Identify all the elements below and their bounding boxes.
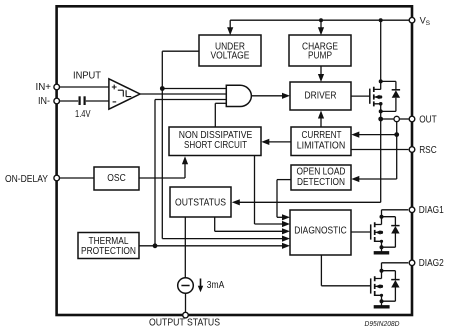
wire charge pump to driver <box>318 66 324 82</box>
op-amp comparator U1 <box>109 79 140 109</box>
wire thermal protection to diagnostic (arrow 5) <box>139 243 290 249</box>
box OSC <box>94 167 139 190</box>
box UNDER VOLTAGE <box>199 35 261 66</box>
wire diagnostic to Q2 gate <box>351 231 371 233</box>
ground Q3 <box>374 305 390 308</box>
terminal DIAG2 <box>409 258 444 269</box>
box OPEN LOAD DETECTION <box>291 165 351 190</box>
terminal DIAG1 <box>409 205 444 216</box>
svg-text:D95IN208D: D95IN208D <box>365 321 400 328</box>
junction dot Q2 body stub <box>380 231 383 234</box>
wire sense to open load detection <box>351 176 396 182</box>
wire outstatus to current source <box>184 217 186 278</box>
junction dot Q2 source node <box>380 245 384 249</box>
junction dot D1 anode node <box>379 109 383 113</box>
junction dot Q1 drain node <box>379 79 383 83</box>
power mosfet Q1 <box>351 20 381 119</box>
svg-text:DIAG1: DIAG1 <box>419 205 444 216</box>
box CHARGE PUMP <box>289 35 351 66</box>
svg-text:ON-DELAY: ON-DELAY <box>5 174 48 185</box>
label INPUT <box>73 70 101 81</box>
junction dot UV / AND input 1 <box>160 86 165 91</box>
wire under voltage output <box>162 51 199 238</box>
wire IN+ to comparator <box>59 86 109 88</box>
junction dot Q3 source node <box>380 299 384 303</box>
wire diagnostic to Q3 gate <box>321 255 370 286</box>
svg-text:VOLTAGE: VOLTAGE <box>211 51 250 62</box>
svg-text:OUT: OUT <box>419 114 437 125</box>
terminal IN- <box>38 96 60 107</box>
junction dot charge pump / rail <box>319 18 323 22</box>
wire UV to diagnostic (arrow 4) <box>162 236 290 242</box>
wire current limitation to short circuit <box>261 139 291 145</box>
wire AND input 1 <box>162 88 226 90</box>
wire AND input 4 from short circuit <box>215 103 226 127</box>
svg-text:3mA: 3mA <box>207 280 225 291</box>
wire OUT line with current sense <box>381 116 409 179</box>
wire out sense to outstatus <box>232 119 381 205</box>
svg-text:1.4V: 1.4V <box>75 109 91 120</box>
terminal IN+ <box>36 82 60 93</box>
box DIAGNOSTIC <box>290 210 351 255</box>
svg-text:IN+: IN+ <box>36 82 52 93</box>
svg-text:INPUT: INPUT <box>73 70 101 81</box>
svg-text:DIAG2: DIAG2 <box>419 258 444 269</box>
wire RSC line <box>351 149 408 151</box>
svg-text:OUTPUT STATUS: OUTPUT STATUS <box>149 317 220 328</box>
svg-text:DIAGNOSTIC: DIAGNOSTIC <box>294 226 347 237</box>
capacitor 1.4V reference <box>75 96 91 120</box>
terminal Vs <box>409 15 430 27</box>
junction dot mosfet drain / rail <box>379 18 383 22</box>
junction dot current limit sense <box>394 132 399 137</box>
wire AND output to driver <box>252 93 291 99</box>
wire capacitor to comparator <box>86 100 109 102</box>
box CURRENT LIMITATION <box>291 127 351 156</box>
diode D2 <box>382 217 400 248</box>
junction dot thermal / AND input 3 <box>153 243 158 248</box>
current source 3mA <box>178 278 225 313</box>
svg-text:DRIVER: DRIVER <box>305 91 337 102</box>
junction dot Q3 drain node <box>380 269 384 273</box>
svg-text:SHORT CIRCUIT: SHORT CIRCUIT <box>184 140 247 151</box>
junction dot Q3 body stub <box>380 285 383 288</box>
svg-text:PROTECTION: PROTECTION <box>81 246 136 257</box>
AND gate <box>226 85 251 106</box>
ground Q2 <box>374 251 390 254</box>
svg-text:DETECTION: DETECTION <box>297 177 345 188</box>
wire current limitation to driver <box>318 111 324 128</box>
junction dot Q3 source stub <box>380 294 383 297</box>
junction dot OUT node <box>378 117 383 122</box>
box THERMAL PROTECTION <box>78 233 139 259</box>
wire osc to short circuit <box>139 156 188 178</box>
svg-text:PUMP: PUMP <box>308 51 332 62</box>
wire AND input 3 from thermal <box>155 100 226 246</box>
Vs supply rail wire <box>227 20 409 35</box>
svg-text:OUTSTATUS: OUTSTATUS <box>175 198 226 209</box>
label D95IN208D <box>365 321 400 328</box>
box NON DISSIPATIVE SHORT CIRCUIT <box>169 127 261 156</box>
junction dot Q1 body stub <box>379 95 382 98</box>
transistor Q3 (DIAG2) <box>371 263 409 306</box>
wire comparator output to AND gate <box>140 93 226 95</box>
wire open load output to diagnostic (arrow 1) <box>277 180 291 221</box>
wire on-delay to osc <box>59 177 94 179</box>
wire sense to current limitation <box>351 132 396 138</box>
svg-text:RSC: RSC <box>419 145 437 156</box>
terminal OUT <box>409 114 437 125</box>
box OUTSTATUS <box>170 187 231 217</box>
diode D3 <box>382 271 400 302</box>
junction dot Q2 source stub <box>380 240 383 243</box>
transistor Q2 (DIAG1) <box>371 210 409 252</box>
junction dot Q1 source stub <box>379 102 383 106</box>
wire IN- to capacitor <box>59 100 78 102</box>
wire outstatus to diagnostic (arrow 3) <box>215 217 290 234</box>
junction dot Q2 drain node <box>380 215 384 219</box>
svg-text:OPEN LOAD: OPEN LOAD <box>297 166 346 177</box>
svg-text:CURRENT: CURRENT <box>302 130 342 141</box>
diode D1 body diode <box>381 81 400 111</box>
wire short circuit to diagnostic (arrow 2) <box>255 156 291 228</box>
terminal ON-DELAY <box>5 174 60 185</box>
svg-text:IN-: IN- <box>38 96 50 107</box>
chip outline border <box>57 6 412 315</box>
terminal RSC <box>409 145 437 156</box>
terminal OUTPUT STATUS <box>149 312 220 328</box>
svg-text:S: S <box>426 20 431 27</box>
box DRIVER <box>290 82 351 110</box>
svg-text:OSC: OSC <box>107 173 126 184</box>
svg-text:LIMITATION: LIMITATION <box>297 141 346 152</box>
